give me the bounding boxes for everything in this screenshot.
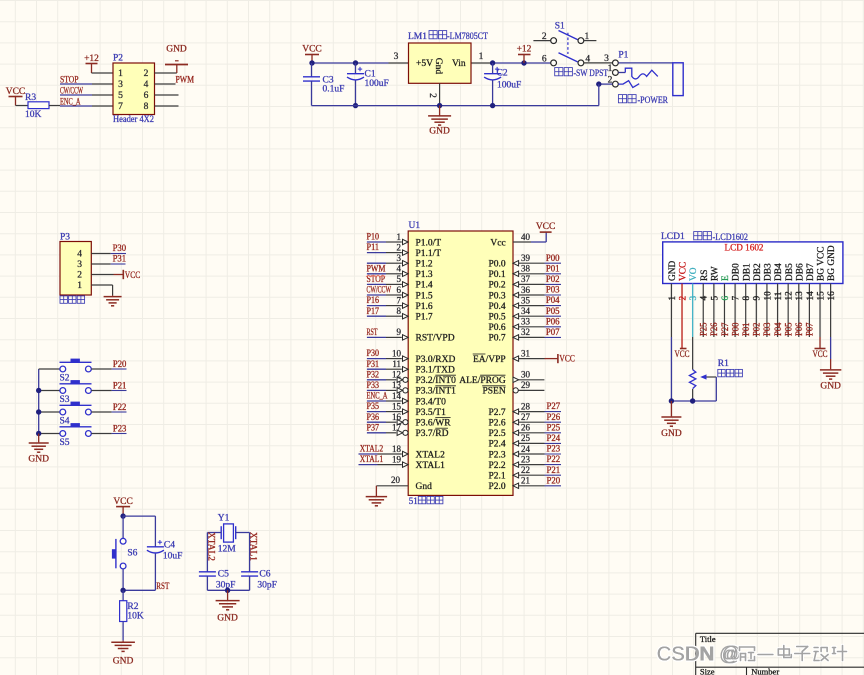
svg-text:R2: R2 [127, 602, 138, 612]
svg-text:5: 5 [397, 274, 402, 284]
svg-text:P2.0: P2.0 [489, 482, 506, 492]
svg-text:P04: P04 [546, 295, 560, 305]
svg-text:PWM: PWM [367, 263, 386, 273]
svg-text:P27: P27 [720, 322, 730, 336]
svg-text:22: 22 [521, 465, 530, 475]
svg-text:P1.3: P1.3 [416, 270, 433, 280]
svg-text:P3.1/TXD: P3.1/TXD [416, 366, 455, 376]
svg-text:P33: P33 [367, 380, 380, 390]
svg-text:C6: C6 [259, 570, 270, 580]
svg-text:30pF: 30pF [257, 581, 277, 591]
svg-text:CSDN @: CSDN @ [657, 644, 740, 666]
svg-text:2: 2 [542, 32, 547, 42]
svg-text:36: 36 [521, 285, 531, 295]
svg-text:DB6: DB6 [795, 263, 805, 281]
svg-text:-LM7805CT: -LM7805CT [447, 32, 488, 42]
svg-text:P23: P23 [113, 424, 127, 434]
svg-text:12: 12 [784, 291, 794, 301]
svg-text:DB7: DB7 [806, 263, 816, 281]
svg-text:P22: P22 [113, 402, 127, 412]
svg-text:P2.2: P2.2 [489, 461, 506, 471]
svg-text:GND: GND [28, 455, 49, 465]
svg-text:1: 1 [118, 69, 123, 79]
svg-text:P31: P31 [113, 254, 127, 264]
svg-text:PWM: PWM [176, 75, 195, 85]
svg-text:19: 19 [392, 454, 402, 464]
svg-text:2: 2 [677, 296, 687, 301]
svg-text:XTAL2: XTAL2 [206, 532, 216, 561]
svg-text:4: 4 [585, 54, 590, 64]
svg-text:28: 28 [521, 401, 531, 411]
svg-text:14: 14 [392, 391, 402, 401]
svg-text:16: 16 [826, 291, 836, 301]
svg-text:P1.1/T: P1.1/T [416, 249, 442, 259]
svg-text:GND: GND [217, 614, 238, 624]
svg-text:P2.1: P2.1 [489, 472, 506, 482]
svg-text:P1.5: P1.5 [416, 291, 433, 301]
svg-text:Size: Size [700, 667, 715, 675]
svg-text:P00: P00 [730, 322, 740, 336]
svg-text:U1: U1 [409, 221, 421, 231]
svg-text:10: 10 [392, 348, 402, 358]
svg-text:DB0: DB0 [732, 263, 742, 281]
svg-text:10K: 10K [127, 612, 143, 622]
svg-text:17: 17 [392, 423, 402, 433]
svg-text:P3.0/RXD: P3.0/RXD [416, 355, 456, 365]
svg-text:P24: P24 [547, 433, 561, 443]
svg-text:3: 3 [397, 253, 402, 263]
svg-text:3: 3 [118, 80, 123, 90]
svg-text:XTAL1: XTAL1 [248, 532, 258, 561]
svg-text:DB5: DB5 [785, 263, 795, 281]
svg-text:STOP: STOP [60, 76, 79, 86]
svg-text:DB2: DB2 [753, 263, 763, 281]
svg-text:P3.2/INT0: P3.2/INT0 [416, 376, 457, 386]
svg-text:3: 3 [394, 52, 399, 62]
svg-text:1: 1 [397, 232, 402, 242]
svg-text:EA/VPP: EA/VPP [473, 355, 506, 365]
svg-text:CW/CCW: CW/CCW [60, 87, 83, 97]
svg-text:P2.4: P2.4 [489, 440, 506, 450]
svg-text:LCD1: LCD1 [661, 232, 685, 242]
svg-text:2: 2 [427, 93, 437, 98]
svg-text:18: 18 [392, 444, 402, 454]
svg-text:P0.5: P0.5 [489, 313, 506, 323]
svg-text:P16: P16 [367, 295, 380, 305]
svg-text:R1: R1 [718, 359, 729, 369]
svg-text:VCC: VCC [675, 350, 690, 360]
svg-text:0.1uF: 0.1uF [323, 85, 345, 95]
svg-text:4: 4 [699, 296, 709, 301]
svg-text:15: 15 [815, 291, 825, 301]
svg-text:P3.4/T0: P3.4/T0 [416, 397, 447, 407]
svg-text:P0.4: P0.4 [489, 302, 506, 312]
svg-text:3: 3 [604, 54, 609, 64]
svg-text:1: 1 [608, 64, 613, 74]
svg-text:GND: GND [820, 382, 841, 392]
svg-text:DB4: DB4 [774, 263, 784, 281]
svg-text:P01: P01 [741, 323, 751, 337]
svg-text:P1.6: P1.6 [416, 302, 433, 312]
svg-text:3: 3 [77, 260, 82, 270]
svg-text:P02: P02 [546, 274, 560, 284]
svg-text:33: 33 [521, 317, 531, 327]
svg-text:5: 5 [709, 296, 719, 301]
svg-text:P22: P22 [547, 454, 561, 464]
svg-text:35: 35 [521, 295, 531, 305]
svg-text:P3.6/WR: P3.6/WR [416, 419, 452, 429]
svg-text:GND: GND [668, 260, 678, 281]
svg-text:LCD 1602: LCD 1602 [725, 244, 764, 254]
svg-text:9: 9 [397, 327, 402, 337]
svg-text:E: E [721, 275, 731, 281]
svg-text:13: 13 [392, 380, 402, 390]
svg-text:4: 4 [397, 264, 402, 274]
svg-text:1: 1 [667, 296, 677, 301]
svg-text:2: 2 [144, 69, 149, 79]
svg-text:1: 1 [585, 32, 590, 42]
svg-text:ENC_A: ENC_A [60, 98, 81, 108]
svg-text:P26: P26 [547, 412, 561, 422]
svg-text:P07: P07 [546, 327, 560, 337]
svg-text:S3: S3 [60, 395, 70, 405]
svg-text:P25: P25 [699, 322, 709, 336]
svg-text:S6: S6 [127, 549, 137, 559]
svg-text:XTAL1: XTAL1 [360, 454, 384, 464]
svg-text:Header 4X2: Header 4X2 [113, 115, 154, 125]
svg-text:12: 12 [392, 370, 401, 380]
svg-text:GND: GND [113, 657, 134, 667]
svg-text:S1: S1 [555, 22, 565, 32]
svg-text:P21: P21 [547, 465, 561, 475]
svg-text:4: 4 [77, 250, 82, 260]
svg-text:P1: P1 [618, 51, 628, 61]
svg-text:XTAL2: XTAL2 [360, 444, 384, 454]
svg-text:4: 4 [144, 80, 149, 90]
svg-text:7: 7 [397, 295, 402, 305]
svg-text:Title: Title [700, 634, 716, 644]
svg-text:6: 6 [144, 91, 149, 101]
svg-text:C1: C1 [365, 70, 376, 80]
svg-text:VCC: VCC [559, 355, 575, 365]
svg-text:Vcc: Vcc [490, 238, 505, 248]
svg-text:20: 20 [391, 475, 401, 485]
svg-text:P1.0/T: P1.0/T [416, 238, 442, 248]
svg-text:S2: S2 [60, 373, 70, 383]
svg-text:RST/VPD: RST/VPD [416, 334, 455, 344]
svg-text:BG GND: BG GND [827, 245, 837, 281]
svg-text:P2.6: P2.6 [489, 419, 506, 429]
svg-text:9: 9 [752, 296, 762, 301]
svg-text:R3: R3 [25, 93, 36, 103]
svg-text:GND: GND [429, 127, 450, 137]
svg-text:P02: P02 [752, 323, 762, 337]
svg-text:C4: C4 [164, 541, 175, 551]
svg-text:+5V: +5V [416, 59, 433, 69]
svg-text:P2: P2 [113, 54, 123, 64]
svg-text:ENC_A: ENC_A [367, 391, 388, 401]
svg-text:37: 37 [521, 274, 531, 284]
svg-text:P21: P21 [113, 381, 127, 391]
svg-text:29: 29 [521, 380, 531, 390]
svg-text:VO: VO [689, 267, 699, 281]
svg-text:S5: S5 [60, 438, 70, 448]
svg-text:P11: P11 [367, 242, 380, 252]
svg-text:10: 10 [762, 291, 772, 301]
svg-text:VCC: VCC [125, 271, 141, 281]
svg-text:P01: P01 [546, 263, 560, 273]
svg-text:2: 2 [77, 271, 82, 281]
svg-text:P03: P03 [762, 322, 772, 336]
svg-text:-SW DPST: -SW DPST [574, 69, 609, 79]
svg-text:P2.7: P2.7 [489, 408, 506, 418]
svg-text:31: 31 [521, 348, 530, 358]
svg-text:GND: GND [661, 429, 682, 439]
svg-text:P0.0: P0.0 [489, 260, 506, 270]
svg-text:34: 34 [521, 306, 531, 316]
svg-text:P06: P06 [546, 316, 560, 326]
svg-text:100uF: 100uF [497, 81, 521, 91]
svg-text:P0.3: P0.3 [489, 291, 506, 301]
svg-text:7: 7 [730, 296, 740, 301]
svg-text:P26: P26 [709, 322, 719, 336]
svg-text:40: 40 [521, 232, 531, 242]
svg-text:7: 7 [118, 102, 123, 112]
svg-text:P1.2: P1.2 [416, 260, 433, 270]
svg-text:P2.5: P2.5 [489, 429, 506, 439]
svg-text:P25: P25 [547, 422, 561, 432]
svg-text:P30: P30 [367, 348, 380, 358]
svg-text:P3.3/INT1: P3.3/INT1 [416, 387, 457, 397]
svg-text:VCC: VCC [302, 45, 322, 55]
svg-text:P03: P03 [546, 285, 560, 295]
svg-text:RS: RS [700, 270, 710, 281]
svg-text:P0.7: P0.7 [489, 334, 506, 344]
svg-text:25: 25 [521, 433, 531, 443]
svg-text:15: 15 [392, 401, 402, 411]
svg-text:P04: P04 [773, 322, 783, 336]
svg-text:P17: P17 [367, 306, 380, 316]
svg-text:51: 51 [409, 496, 418, 506]
svg-text:VCC: VCC [113, 497, 133, 507]
svg-text:Y1: Y1 [218, 514, 230, 524]
svg-text:P36: P36 [367, 412, 380, 422]
svg-text:S4: S4 [60, 416, 70, 426]
svg-text:Gnd: Gnd [416, 482, 433, 492]
svg-text:RST: RST [367, 327, 378, 337]
svg-text:C5: C5 [218, 570, 229, 580]
svg-text:Vin: Vin [452, 59, 466, 69]
svg-text:1: 1 [77, 281, 82, 291]
svg-text:6: 6 [542, 54, 547, 64]
svg-text:DB1: DB1 [742, 263, 752, 281]
svg-text:23: 23 [521, 454, 531, 464]
svg-text:P10: P10 [367, 232, 380, 242]
svg-text:11: 11 [773, 291, 783, 300]
svg-text:P27: P27 [547, 401, 561, 411]
svg-text:P31: P31 [367, 359, 380, 369]
svg-text:P3.7/RD: P3.7/RD [416, 429, 449, 439]
svg-text:8: 8 [397, 306, 402, 316]
svg-text:24: 24 [521, 444, 531, 454]
svg-text:RW: RW [710, 266, 720, 281]
svg-text:P32: P32 [367, 369, 380, 379]
svg-text:P07: P07 [805, 322, 815, 336]
svg-text:13: 13 [794, 291, 804, 301]
svg-text:ALE/PROG: ALE/PROG [459, 376, 506, 386]
svg-text:1: 1 [479, 52, 484, 62]
svg-text:+12: +12 [84, 54, 99, 64]
svg-text:5: 5 [118, 91, 123, 101]
svg-text:P06: P06 [794, 322, 804, 336]
svg-text:Number: Number [751, 667, 779, 675]
svg-text:LM1: LM1 [408, 32, 427, 42]
svg-text:26: 26 [521, 423, 531, 433]
svg-text:XTAL1: XTAL1 [416, 461, 446, 471]
svg-text:RST: RST [156, 581, 169, 591]
svg-text:C2: C2 [497, 69, 508, 79]
svg-text:21: 21 [521, 476, 530, 486]
svg-text:VCC: VCC [6, 87, 26, 97]
svg-text:P37: P37 [367, 422, 380, 432]
svg-text:12M: 12M [218, 545, 237, 555]
svg-text:30: 30 [521, 370, 531, 380]
svg-text:6: 6 [397, 285, 402, 295]
svg-text:32: 32 [521, 327, 530, 337]
svg-text:P0.1: P0.1 [489, 270, 506, 280]
svg-text:10uF: 10uF [163, 552, 183, 562]
svg-text:P2.3: P2.3 [489, 450, 506, 460]
svg-text:P3.5/T1: P3.5/T1 [416, 408, 447, 418]
svg-text:3: 3 [688, 296, 698, 301]
svg-text:P05: P05 [546, 306, 560, 316]
svg-text:11: 11 [392, 359, 401, 369]
svg-text:38: 38 [521, 264, 531, 274]
svg-text:P35: P35 [367, 401, 380, 411]
svg-text:Gnd: Gnd [433, 58, 443, 75]
svg-text:P1.7: P1.7 [416, 313, 433, 323]
svg-text:VCC: VCC [679, 262, 689, 281]
svg-text:P20: P20 [113, 359, 127, 369]
svg-text:PSEN: PSEN [482, 387, 505, 397]
svg-text:CW/CCW: CW/CCW [367, 285, 392, 295]
svg-text:8: 8 [741, 296, 751, 301]
svg-text:10K: 10K [25, 110, 42, 120]
svg-text:VCC: VCC [536, 222, 556, 232]
svg-text:BG VCC: BG VCC [817, 247, 827, 281]
svg-text:39: 39 [521, 253, 531, 263]
svg-text:P00: P00 [546, 253, 560, 263]
svg-text:GND: GND [166, 45, 187, 55]
svg-text:14: 14 [805, 291, 815, 301]
svg-text:2: 2 [397, 242, 402, 252]
svg-text:6: 6 [720, 296, 730, 301]
svg-text:P0.2: P0.2 [489, 281, 506, 291]
svg-text:16: 16 [392, 412, 402, 422]
svg-text:100uF: 100uF [365, 79, 389, 89]
svg-text:DB3: DB3 [764, 263, 774, 281]
svg-text:P20: P20 [547, 475, 561, 485]
svg-text:-POWER: -POWER [638, 96, 669, 106]
svg-text:27: 27 [521, 412, 531, 422]
svg-text:8: 8 [144, 102, 149, 112]
svg-text:XTAL2: XTAL2 [416, 450, 446, 460]
svg-text:+12: +12 [517, 45, 532, 55]
svg-text:P1.4: P1.4 [416, 281, 433, 291]
svg-text:P05: P05 [783, 322, 793, 336]
svg-text:P23: P23 [547, 444, 561, 454]
svg-text:VCC: VCC [813, 350, 828, 360]
svg-text:P30: P30 [113, 243, 127, 253]
svg-text:P0.6: P0.6 [489, 323, 506, 333]
